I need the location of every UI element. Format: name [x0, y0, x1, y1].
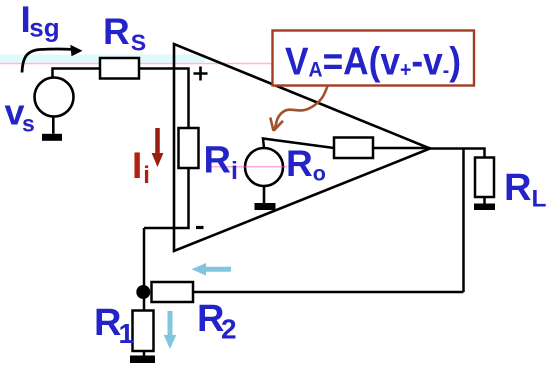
annotation arrow squiggle — [270, 86, 327, 131]
svg-text:Isg: Isg — [21, 0, 60, 43]
artifact cyan band — [0, 55, 205, 63]
resistor R1 — [133, 311, 154, 352]
label RS — [103, 11, 146, 56]
label Ri — [204, 140, 238, 186]
svg-text:R1: R1 — [94, 302, 134, 349]
label R1 — [94, 302, 134, 349]
ground (dependent source) — [255, 186, 276, 210]
feedback current arrow (vertical cyan) — [164, 311, 177, 349]
label RL — [504, 167, 546, 212]
- input label — [196, 226, 204, 229]
ground (R1) — [130, 351, 155, 363]
label Ii — [132, 145, 150, 189]
wire node to R1 — [143, 298, 146, 311]
label Isg — [21, 0, 60, 43]
+ input label — [194, 67, 208, 81]
svg-text:RS: RS — [103, 11, 146, 56]
resistor Ro — [334, 138, 373, 159]
resistor R2 — [152, 282, 194, 302]
node junction dot — [136, 285, 150, 299]
label vs — [5, 92, 35, 137]
ground (vs) — [42, 117, 62, 141]
wire R2 to output node — [193, 291, 464, 294]
current arrow Ii — [152, 128, 164, 167]
svg-text:R2: R2 — [197, 298, 237, 345]
wire Ro to apex — [373, 147, 430, 150]
artifact magenta line — [207, 166, 287, 168]
svg-text:Ro: Ro — [286, 143, 326, 186]
wire vs to RS — [53, 69, 101, 78]
current arrow Isg — [22, 45, 83, 73]
annotation box VA — [273, 31, 475, 86]
svg-text:Ii: Ii — [132, 145, 150, 189]
label Ro — [286, 143, 326, 186]
ground (RL) — [474, 197, 495, 210]
svg-text:RL: RL — [504, 167, 546, 212]
resistor RS — [100, 58, 139, 79]
label VA=A(v+-v-) — [285, 41, 461, 84]
feedback current arrow (horizontal cyan) — [192, 263, 232, 276]
resistor RL — [475, 158, 494, 198]
resistor Ri — [179, 128, 199, 168]
artifact pink line — [0, 63, 272, 65]
wire feedback right vertical — [462, 149, 465, 293]
dependent source U1 — [245, 148, 283, 186]
wire feedback left vertical — [143, 228, 146, 292]
wire Ri to - input — [144, 168, 189, 228]
svg-text:vs: vs — [5, 92, 35, 137]
svg-text:Ri: Ri — [204, 140, 238, 186]
label R2 — [197, 298, 237, 345]
wire RS to + input — [139, 69, 189, 129]
voltage source vs — [35, 78, 74, 117]
wire output — [430, 149, 485, 158]
op-amp triangle — [174, 44, 430, 251]
wire source to Ro — [263, 139, 334, 149]
